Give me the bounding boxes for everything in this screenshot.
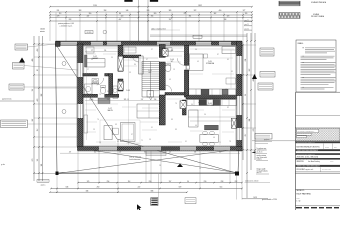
interior wall vertical 6 [109,74,113,95]
staircase [142,62,159,101]
svg-text:447: 447 [87,16,90,18]
interior vertical dim [128,46,130,145]
interior wall vertical 1 lower [118,79,123,91]
interior wall vertical 5 [182,100,186,115]
interior wall vertical 4 upper [184,45,188,65]
svg-text:87: 87 [37,69,39,71]
bottom exterior wall [78,147,243,151]
corner knot right [235,172,239,176]
left leader lines [28,44,56,47]
interior wall vertical 1 upper [118,45,123,71]
svg-text:380: 380 [94,152,97,154]
svg-text:1.04: 1.04 [170,59,173,61]
interior finish line left [83,46,85,146]
svg-text:skala: skala [297,197,300,199]
left callout box 2 [13,63,25,70]
extension line to icon [158,174,160,198]
right wall window 2 [237,96,243,115]
svg-text:199: 199 [245,13,248,15]
svg-text:277: 277 [91,50,94,52]
svg-text:90: 90 [187,181,189,183]
svg-text:256: 256 [107,181,110,183]
svg-text:222: 222 [138,187,141,189]
notes text lines [305,47,335,49]
top right small ref lines [244,21,252,23]
svg-text:383: 383 [79,10,82,12]
bottom dimension line 3 [50,191,187,193]
svg-text:382: 382 [41,94,43,97]
svg-text:400: 400 [219,10,222,12]
right callout box 2 [260,72,275,78]
living rug [100,120,140,144]
interior dim string 2 [130,57,158,59]
bottom wall terrace door [141,147,161,151]
svg-text:112: 112 [37,129,39,132]
svg-text:113: 113 [59,13,62,15]
bedroom nightstand [204,54,208,58]
legend box sciana projektowana [279,13,300,19]
svg-text:362: 362 [214,13,217,15]
bedroom bed [186,54,203,71]
svg-text:222: 222 [169,152,172,154]
interior wall vertical 4 lower [184,70,188,97]
interior wall horizontal 4 [186,96,237,100]
svg-text:86: 86 [119,13,121,15]
svg-text:poz. 2.1: poz. 2.1 [245,24,250,26]
wardrobe top-left room [86,59,106,67]
interior wall vertical 2 light [139,56,144,74]
interior wall horizontal 3 [165,93,185,96]
desk top-left room [86,47,94,53]
dim line below bottom wall [60,152,240,154]
svg-text:405: 405 [32,59,34,62]
svg-text:322: 322 [249,69,251,72]
svg-text:przylacze: przylacze [264,139,270,141]
door arc 5 [198,96,205,103]
svg-text:249: 249 [119,152,122,154]
living sofa large [121,123,136,142]
svg-text:1.05: 1.05 [208,61,211,63]
left callout box 1 [15,44,28,50]
chimney duct 2 [118,81,123,90]
svg-text:390: 390 [89,13,92,15]
right callout box 4 [255,134,272,140]
interior dim string upper [85,51,118,53]
bottom wall window 2 [180,147,196,151]
svg-text:308: 308 [91,99,94,101]
roof diagonal 1 [56,44,118,139]
svg-text:201: 201 [57,10,60,12]
bottom wall window 1 [99,147,117,151]
left dimension lines [33,36,35,181]
legend box sciana istniejaca [279,1,300,6]
bottom header strip of title block [296,207,302,208]
corner pillar top-left [56,42,61,47]
svg-text:347: 347 [32,119,34,122]
svg-text:Tu wykonac pas: Tu wykonac pas [257,148,267,150]
bottom small triangle marker [177,164,183,168]
hall wall segment [123,55,141,58]
bathroom toilet [100,87,105,94]
svg-text:RZUT PARTERU: RZUT PARTERU [297,193,312,196]
left wall window 1 [78,63,84,77]
kitchen sink [199,100,207,105]
svg-text:385: 385 [124,99,127,101]
svg-text:1.07: 1.07 [108,108,111,110]
svg-text:108: 108 [171,50,174,52]
long leader to title [252,140,295,142]
roof diagonal 3 [78,148,236,173]
top exterior wall [56,42,243,46]
roof diagonal 4 [57,149,242,174]
chimney duct 5 [232,118,237,128]
left extension lines [34,43,78,45]
interior clutter lines [85,47,117,49]
left wall window 2 [78,104,84,118]
chimney duct 1 [118,56,123,71]
door arc 3 [165,85,172,92]
svg-text:322: 322 [194,10,197,12]
svg-text:125: 125 [87,181,90,183]
top wall window 5 [219,42,231,46]
grid bubble 1 [62,62,66,66]
chimney duct 4 [180,101,186,109]
interior wall horizontal 2 [83,94,98,97]
svg-text:646: 646 [66,187,69,189]
svg-text:384: 384 [249,119,251,122]
svg-text:157: 157 [169,19,172,21]
svg-text:389: 389 [169,10,172,12]
left callout box 3 [9,84,24,90]
svg-text:poz. 2.1: poz. 2.1 [245,20,250,22]
exterior insulation contour [56,40,243,42]
svg-text:157: 157 [169,181,172,183]
site boundary right edge [238,45,242,174]
svg-text:INWESTOR:: INWESTOR: [297,161,305,163]
living armchair [104,126,112,140]
svg-text:wieniec: wieniec [40,31,45,33]
top wall opening left [61,42,78,46]
interior wall horizontal 1b [105,74,109,77]
lintel label circle [103,30,107,34]
eaves label box right [193,35,202,38]
svg-text:poz. 2.1: poz. 2.1 [245,28,250,30]
interior wall horizontal 1 [83,74,97,77]
title table rows [295,142,340,144]
right entrance triangle [252,74,257,79]
svg-text:346: 346 [86,191,89,193]
svg-text:323: 323 [227,16,230,18]
interior finish line bottom [83,145,237,147]
kitchen counter [187,100,237,106]
svg-text:320: 320 [154,13,157,15]
svg-text:509: 509 [179,187,182,189]
right extension lines [242,44,256,46]
svg-text:514: 514 [220,187,223,189]
interior wall vertical 3 lower [159,95,165,125]
interior wall vertical 3 mid [159,62,165,90]
svg-text:292: 292 [107,99,110,101]
section marker right [150,0,158,2]
svg-text:292: 292 [235,181,238,183]
svg-text:1 : 50: 1 : 50 [297,200,301,202]
svg-text:283: 283 [69,19,72,21]
left entrance triangle [19,58,25,63]
bottom extension lines [56,175,58,194]
dining table [200,134,218,142]
boiler [113,86,118,99]
door arc 2 [133,56,139,62]
svg-text:146: 146 [126,10,129,12]
bottom edge extension left [34,173,57,175]
svg-text:114: 114 [128,181,131,183]
svg-text:356: 356 [151,16,154,18]
bottom right short line [242,198,268,200]
svg-text:377: 377 [243,10,246,12]
svg-text:1892: 1892 [198,5,202,7]
right dimension ticks [242,44,244,46]
wide box leader [28,123,78,125]
mini table icon bottom center [151,198,158,206]
svg-text:1.08: 1.08 [126,90,129,92]
bathroom washer [85,84,93,94]
left long horizontal line [0,100,34,102]
title block hatched header [295,128,340,141]
svg-text:= 213,40 m n.p.m.: = 213,40 m n.p.m. [60,25,73,27]
bottom wall window 3 [214,147,230,151]
title block top lines [296,91,340,93]
section marker left [125,0,133,2]
note bullets [303,47,304,49]
svg-text:361: 361 [189,16,192,18]
svg-text:158: 158 [154,99,157,101]
svg-text:budynku: budynku [257,159,262,161]
svg-text:686: 686 [151,191,154,193]
svg-text:HOL: HOL [148,72,151,74]
left wide label box [1,120,28,128]
bedroom wardrobe [222,47,236,54]
svg-text:161: 161 [37,159,39,162]
svg-text:granica: granica [41,185,46,187]
svg-text:139: 139 [104,50,107,52]
svg-text:298: 298 [221,181,224,183]
svg-text:459: 459 [37,49,39,52]
svg-text:1.02: 1.02 [93,56,96,58]
terrace steps [146,151,166,156]
boundary label small box [37,180,49,183]
right wall window 1 [237,56,243,74]
living sideboard [137,104,161,118]
right exterior wall [237,42,243,151]
top wall window 2 [107,42,121,46]
svg-text:178: 178 [57,16,60,18]
svg-text:423: 423 [37,99,39,102]
living tv bench [84,115,88,133]
office radiator [85,55,88,67]
door arc 1 [97,78,104,85]
right dimension lines [242,45,244,160]
top wall outer face line [56,41,243,43]
svg-text:NR DZ.: NR DZ. [325,146,330,148]
right wall window 3 [237,128,243,140]
svg-text:ok. 25 cm: ok. 25 cm [257,151,264,153]
svg-text:1.03: 1.03 [93,81,96,83]
svg-text:1.01: 1.01 [148,70,151,72]
chimney duct 3 [162,49,168,56]
top dimension ticks [49,11,51,13]
svg-text:101: 101 [41,164,43,167]
svg-text:217: 217 [245,134,247,137]
interior dim string 3 [190,120,232,122]
hall cabinet dark [98,98,110,104]
right callout box 1 [260,48,274,56]
wc sink small [166,48,172,52]
corner knot left [56,172,59,176]
top wall window 4 [196,42,211,46]
svg-text:230: 230 [204,181,207,183]
svg-text:338: 338 [194,152,197,154]
eaves line above top wall [150,34,247,36]
interior dim string 1 [85,100,160,102]
svg-text:120x60: 120x60 [40,29,45,31]
interior finish line right [235,46,237,146]
left dimension ticks [33,43,35,45]
svg-text:320: 320 [121,16,124,18]
interior wall horizontal 2b [105,94,119,97]
mouse cursor [137,204,141,210]
bottom dimension line 1 [78,182,242,184]
interior dim string kitchen [188,116,235,118]
kitchen stove [213,100,221,105]
svg-text:278: 278 [253,129,255,132]
top extension lines [49,13,51,42]
interior wall vertical 3 upper [159,44,165,57]
svg-text:234: 234 [245,59,247,62]
right callout box 3 [258,83,273,90]
notes box [296,40,336,92]
svg-text:95: 95 [245,94,247,96]
svg-text:157: 157 [32,89,34,92]
svg-text:358: 358 [104,10,107,12]
svg-text:2130: 2130 [93,5,97,7]
lintel label O1 [85,31,93,34]
wc toilet small [165,64,171,71]
grid bubble 2 [62,110,66,114]
top dimension lines [50,6,252,8]
bottom dimension line 2 [51,188,242,190]
svg-text:podpis: podpis [330,161,334,163]
roof diagonal 2 [117,139,238,174]
svg-text:260: 260 [97,187,100,189]
svg-text:Uwaga: spadki: Uwaga: spadki [257,169,267,171]
svg-text:1.06: 1.06 [208,103,211,105]
svg-text:407: 407 [119,19,122,21]
site boundary left edge [56,44,58,174]
bedroom dresser [226,78,236,84]
svg-text:N1 120: N1 120 [87,32,92,34]
bathroom sink [92,79,99,85]
top wall window 3 [157,42,170,46]
top wall window 1 [91,42,103,46]
svg-text:1428: 1428 [253,197,257,199]
svg-text:min. 2%: min. 2% [257,172,263,174]
title block left border [295,92,297,210]
svg-text:317: 317 [141,99,144,101]
living coffee table [113,128,119,135]
svg-text:279: 279 [32,159,34,162]
kitchen island dark block [205,125,219,130]
svg-text:221/4: 221/4 [334,146,337,148]
svg-text:447: 447 [69,152,72,154]
interior vertical dim strings [86,50,88,140]
svg-text:granica dzialki nr 221/4: granica dzialki nr 221/4 [262,199,277,201]
bottom left small box [185,198,196,204]
site boundary bottom edge [57,173,238,175]
left exterior wall [78,44,84,148]
door arc 4 [177,58,184,65]
svg-text:200: 200 [219,152,222,154]
hatched header label boxes [297,129,319,132]
kitchen fridge [189,110,198,127]
hall closet [124,47,136,53]
interior finish line top [83,45,237,47]
bedroom wardrobe row [188,89,236,95]
